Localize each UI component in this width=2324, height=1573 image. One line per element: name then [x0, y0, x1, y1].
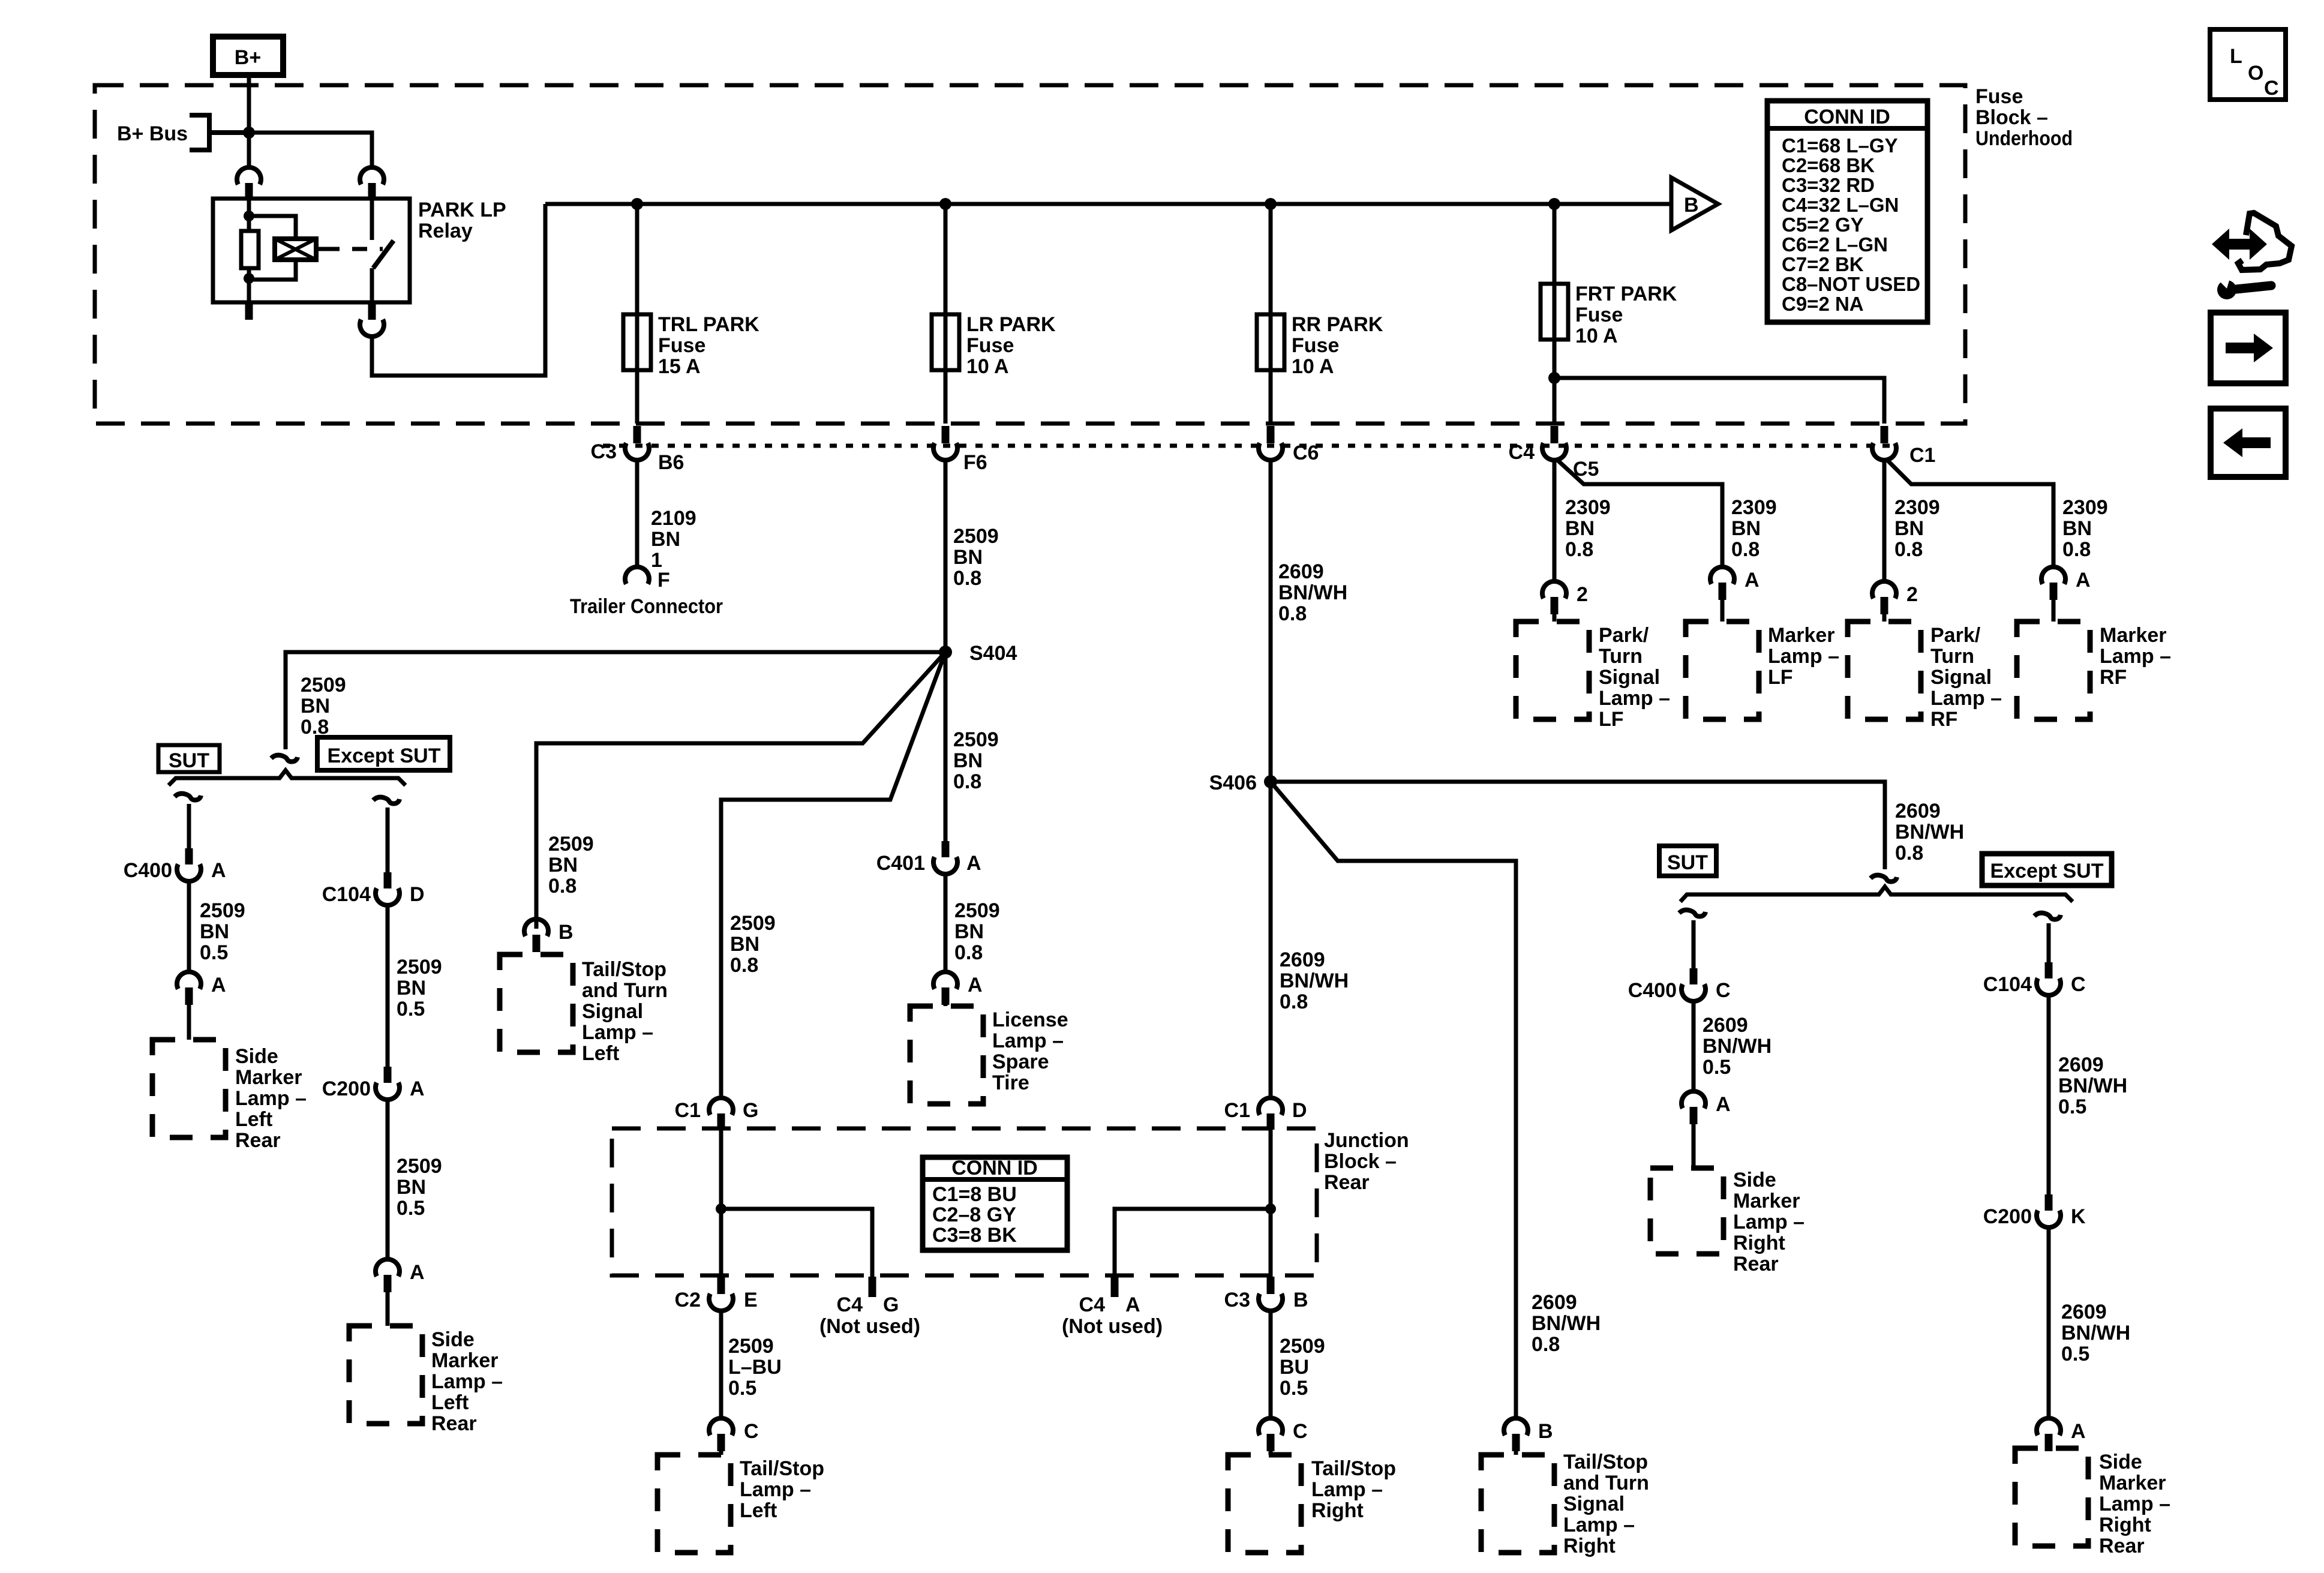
wire relay coil feed: [244, 199, 254, 231]
svg-text:2: 2: [1577, 583, 1588, 606]
junction block rear boundary (dashed): [612, 1128, 1317, 1275]
svg-text:Signal: Signal: [1930, 666, 1992, 689]
svg-text:and Turn: and Turn: [1563, 1472, 1649, 1494]
wire C1D inside junction block: [1265, 1130, 1276, 1277]
wire coil branch bottom: [249, 260, 296, 280]
option split bar right: [1680, 887, 2073, 902]
option tag Except SUT (right): [1982, 854, 2112, 885]
lamp Side Marker Lamp - Right Rear (SUT): [1650, 1168, 1724, 1254]
wire into side marker right rear: [1692, 1124, 1696, 1168]
label circuit 2509 L-BU 0.5: [728, 1335, 782, 1400]
connector C401 pin A: [933, 841, 957, 874]
svg-text:2509: 2509: [397, 956, 442, 978]
svg-text:LR PARK: LR PARK: [966, 313, 1056, 336]
svg-text:2309: 2309: [1565, 496, 1611, 519]
connector C200 pin K: [2037, 1194, 2061, 1227]
svg-text:10 A: 10 A: [966, 355, 1009, 378]
svg-text:Left: Left: [235, 1108, 272, 1131]
connector C1 pin G (junction block): [709, 1098, 733, 1130]
label S406: [1209, 772, 1257, 794]
svg-text:BN: BN: [1565, 517, 1595, 540]
connector B at tail/stop-turn left: [524, 919, 548, 952]
svg-text:Lamp –: Lamp –: [1563, 1514, 1635, 1536]
label C (C104): [2071, 973, 2086, 996]
label Tail/Stop Lamp - Right: [1311, 1457, 1396, 1522]
svg-text:A: A: [1716, 1093, 1731, 1116]
label A (lamp): [211, 974, 226, 996]
label A (C400): [211, 859, 226, 882]
svg-text:Block –: Block –: [1975, 106, 2048, 129]
svg-text:2309: 2309: [2062, 496, 2108, 519]
lamp Tail/Stop and Turn Signal Lamp - Left: [500, 954, 573, 1052]
svg-text:Signal: Signal: [1563, 1493, 1625, 1515]
svg-text:C104: C104: [1983, 973, 2032, 996]
svg-text:Underhood: Underhood: [1975, 127, 2073, 150]
label circuit 2309 BN 0.8 (RF park): [1894, 496, 1940, 561]
svg-text:RF: RF: [1930, 708, 1957, 731]
svg-text:Rear: Rear: [1324, 1171, 1370, 1194]
svg-text:L–BU: L–BU: [728, 1356, 782, 1379]
svg-text:Lamp –: Lamp –: [2100, 645, 2171, 668]
svg-text:Fuse: Fuse: [1292, 334, 1339, 357]
label (Not used) left: [819, 1315, 920, 1338]
svg-text:2509: 2509: [730, 912, 776, 935]
svg-text:BN: BN: [651, 528, 680, 551]
wire C5 to marker LF connector: [1556, 459, 1722, 566]
svg-text:B6: B6: [658, 451, 684, 474]
icon harness diagnostics (arrow + wrench): [2212, 213, 2292, 299]
label C104: [322, 883, 371, 906]
svg-text:Lamp –: Lamp –: [992, 1029, 1064, 1052]
label C400 (right): [1628, 979, 1677, 1002]
svg-text:A: A: [410, 1077, 425, 1100]
svg-text:Junction: Junction: [1324, 1129, 1409, 1152]
harness break (right Except SUT branch): [2034, 913, 2061, 920]
svg-text:2609: 2609: [1703, 1014, 1748, 1037]
icon LOC box: [2210, 29, 2286, 100]
label FRT PARK Fuse 10 A: [1575, 283, 1677, 347]
svg-text:BN/WH: BN/WH: [2061, 1322, 2130, 1344]
svg-text:2609: 2609: [1532, 1291, 1577, 1314]
label circuit 2509 BU 0.5: [1280, 1335, 1325, 1400]
svg-text:B+: B+: [235, 46, 261, 69]
label Marker Lamp - RF: [2100, 624, 2171, 689]
svg-text:TRL PARK: TRL PARK: [658, 313, 759, 336]
label Marker Lamp - LF: [1768, 624, 1839, 689]
label C (C400): [1716, 979, 1731, 1002]
connector 2 at park/turn LF: [1542, 581, 1566, 614]
svg-text:10 A: 10 A: [1575, 325, 1618, 347]
svg-text:Trailer Connector: Trailer Connector: [570, 595, 723, 618]
svg-text:Side: Side: [431, 1328, 475, 1351]
svg-text:BN: BN: [397, 1176, 426, 1199]
connector C400 pin A: [177, 848, 201, 881]
wire into marker RF: [2052, 600, 2056, 622]
svg-text:Right: Right: [1311, 1499, 1364, 1522]
svg-text:Fuse: Fuse: [658, 334, 705, 357]
option split bar (SUT / Except SUT): [169, 770, 406, 785]
label C200: [322, 1077, 371, 1100]
svg-text:CONN ID: CONN ID: [951, 1157, 1038, 1179]
wire C401 to license lamp connector: [944, 872, 948, 971]
svg-text:0.5: 0.5: [1703, 1056, 1731, 1079]
wire F6 to splice S404: [944, 458, 948, 652]
svg-text:0.5: 0.5: [200, 941, 228, 964]
harness break (right split feed): [1870, 875, 1897, 882]
svg-text:D: D: [410, 883, 425, 906]
label C3: [591, 440, 617, 463]
label A (C401): [966, 852, 981, 875]
connector row line (dotted): [603, 444, 1899, 448]
wire C104 to C200: [386, 903, 390, 1067]
svg-text:0.8: 0.8: [730, 954, 758, 977]
svg-text:Fuse: Fuse: [966, 334, 1014, 357]
svg-text:Lamp –: Lamp –: [235, 1087, 307, 1110]
label Park/Turn Signal Lamp - RF: [1930, 624, 2002, 731]
svg-text:B: B: [1684, 194, 1699, 217]
svg-text:C6=2 L–GN: C6=2 L–GN: [1782, 233, 1888, 256]
svg-text:K: K: [2071, 1205, 2086, 1228]
svg-text:C2: C2: [675, 1289, 701, 1311]
label circuit 2609 BN/WH 0.8 (tail right): [1532, 1291, 1601, 1356]
node bus-RR PARK: [1265, 198, 1277, 210]
wire coil branch top: [249, 216, 296, 239]
node: B+ bus junction: [243, 127, 255, 139]
svg-text:C7=2 BK: C7=2 BK: [1782, 253, 1864, 275]
svg-text:Right: Right: [2099, 1514, 2151, 1536]
svg-text:Side: Side: [235, 1045, 278, 1068]
wire to C104 D: [386, 807, 390, 872]
fuse LR PARK 10A: [932, 314, 959, 370]
svg-text:0.5: 0.5: [2061, 1343, 2089, 1365]
lamp Park/Turn Signal Lamp - LF: [1516, 622, 1589, 719]
table CONN ID (junction block): [923, 1157, 1067, 1250]
svg-text:2509: 2509: [953, 728, 999, 751]
svg-text:Lamp –: Lamp –: [582, 1021, 653, 1044]
svg-text:Right: Right: [1733, 1232, 1785, 1254]
B+ Bus tap symbol: [190, 115, 249, 150]
fuse RR PARK 10A: [1257, 314, 1284, 370]
svg-text:Lamp –: Lamp –: [1733, 1211, 1804, 1233]
connector 2 at park/turn RF: [1872, 581, 1896, 614]
wire S404 to C401: [944, 652, 948, 841]
connector A at license lamp: [933, 972, 957, 1005]
svg-text:C4: C4: [1509, 441, 1535, 464]
label A (license): [968, 974, 983, 996]
svg-text:Lamp –: Lamp –: [1930, 687, 2002, 710]
svg-text:2509: 2509: [548, 833, 594, 855]
label C401: [876, 852, 925, 875]
svg-text:Block –: Block –: [1324, 1150, 1397, 1173]
connector C3 pin B6: [625, 426, 649, 460]
svg-text:Turn: Turn: [1930, 645, 1974, 668]
wire S404 to tail/stop-turn left: [536, 652, 945, 929]
wire C3 to trailer connector: [635, 458, 639, 566]
wire into marker LF: [1721, 600, 1725, 622]
harness break (split feed): [271, 755, 298, 762]
power symbol B+ (boxed): [213, 37, 283, 75]
label circuit 2609 BN/WH 0.8 (C6): [1278, 560, 1347, 625]
svg-text:Left: Left: [740, 1499, 777, 1522]
svg-text:BN: BN: [548, 854, 578, 876]
svg-text:0.8: 0.8: [1731, 538, 1759, 561]
svg-text:0.5: 0.5: [1280, 1377, 1308, 1400]
svg-text:C: C: [2071, 973, 2086, 996]
label Side Marker Lamp - Right Rear: [1733, 1169, 1804, 1275]
svg-text:FRT PARK: FRT PARK: [1575, 283, 1677, 305]
label C5: [1573, 458, 1599, 481]
svg-text:Right: Right: [1563, 1535, 1616, 1557]
svg-text:BN: BN: [954, 920, 984, 943]
relay switch fixed contact: [370, 199, 374, 240]
wire bus to RR PARK fuse: [1269, 204, 1273, 424]
svg-text:0.8: 0.8: [1895, 842, 1923, 864]
label License Lamp - Spare Tire: [992, 1008, 1068, 1094]
label circuit 2609 BN/WH 0.5 (C104 C): [2058, 1053, 2127, 1118]
svg-text:Turn: Turn: [1599, 645, 1643, 668]
lamp Park/Turn Signal Lamp - RF: [1848, 622, 1921, 719]
svg-text:C2–8 GY: C2–8 GY: [932, 1203, 1016, 1226]
connector C2 pin E: [709, 1277, 733, 1311]
svg-text:B: B: [1293, 1289, 1308, 1311]
option tag Except SUT (left): [317, 737, 450, 770]
svg-text:SUT: SUT: [1667, 851, 1708, 874]
wire into park/turn LF: [1553, 614, 1557, 622]
wire C400C to lamp connector: [1692, 999, 1696, 1090]
label Tail/Stop and Turn Signal Lamp - Left: [582, 958, 668, 1065]
svg-text:S406: S406: [1209, 772, 1257, 794]
svg-text:Fuse: Fuse: [1575, 304, 1623, 326]
svg-text:Except SUT: Except SUT: [1990, 860, 2104, 882]
svg-text:L: L: [2230, 45, 2242, 68]
svg-text:(Not used): (Not used): [1062, 1315, 1163, 1338]
svg-text:C200: C200: [322, 1077, 371, 1100]
wire to C400 A: [187, 804, 191, 848]
svg-text:0.8: 0.8: [1532, 1333, 1560, 1356]
svg-text:C3: C3: [1224, 1289, 1250, 1311]
svg-text:Side: Side: [2099, 1451, 2142, 1473]
svg-text:C2=68 BK: C2=68 BK: [1782, 154, 1875, 176]
svg-text:A: A: [2071, 1420, 2086, 1443]
relay switch pin connector (cup+tick): [360, 167, 384, 199]
label circuit 2509 BN 0.8 (F6): [953, 525, 999, 590]
svg-text:C1: C1: [1224, 1099, 1250, 1122]
svg-text:Relay: Relay: [418, 220, 473, 242]
svg-text:BN: BN: [1731, 517, 1761, 540]
connector F6: [933, 426, 957, 460]
svg-text:C4=32 L–GN: C4=32 L–GN: [1782, 194, 1899, 216]
harness break (Except SUT branch): [373, 797, 400, 804]
svg-text:2609: 2609: [2058, 1053, 2104, 1076]
svg-text:F: F: [657, 569, 670, 592]
svg-text:C9=2 NA: C9=2 NA: [1782, 293, 1864, 315]
label A (marker LF): [1744, 569, 1759, 592]
wire B+ bus to relay coil pin: [247, 133, 251, 166]
svg-text:A: A: [2076, 569, 2091, 592]
svg-text:C1=68 L–GY: C1=68 L–GY: [1782, 134, 1898, 157]
svg-text:BU: BU: [1280, 1356, 1309, 1379]
label C (tail right): [1293, 1420, 1308, 1443]
wire parklamp feed bus: [545, 202, 1670, 206]
wire C104C to C200K: [2047, 993, 2051, 1194]
svg-text:BN: BN: [301, 695, 330, 718]
svg-text:2609: 2609: [1895, 800, 1941, 822]
label B+ Bus: [117, 122, 188, 145]
terminal C4 pin A (not used): [1111, 1277, 1119, 1297]
svg-text:PARK LP: PARK LP: [418, 199, 506, 221]
connector C3 pin B (junction block): [1259, 1277, 1283, 1311]
svg-text:Lamp –: Lamp –: [431, 1370, 503, 1393]
label A (lamp 2): [410, 1261, 425, 1284]
splice S404: [939, 646, 952, 659]
svg-text:0.5: 0.5: [2058, 1095, 2086, 1118]
label circuit 2309 BN 0.8 (LF marker): [1731, 496, 1777, 561]
label C3 (B): [1224, 1289, 1250, 1311]
svg-text:Spare: Spare: [992, 1050, 1049, 1073]
label Fuse Block - Underhood: [1975, 85, 2073, 150]
svg-text:Fuse: Fuse: [1975, 85, 2023, 108]
svg-text:2509: 2509: [1280, 1335, 1325, 1358]
svg-text:Tail/Stop: Tail/Stop: [740, 1457, 824, 1480]
label circuit 2509 BN 0.8 (tail left): [548, 833, 594, 897]
wire into tail/stop right: [1269, 1451, 1273, 1455]
svg-text:0.8: 0.8: [1894, 538, 1923, 561]
svg-text:Park/: Park/: [1599, 624, 1649, 647]
fuse block underhood boundary (dashed): [95, 85, 1965, 424]
svg-text:2309: 2309: [1731, 496, 1777, 519]
label circuit 2609 BN/WH 0.8 (C1 D): [1280, 948, 1349, 1013]
svg-text:Marker: Marker: [1768, 624, 1835, 647]
svg-text:A: A: [968, 974, 983, 996]
label C104 (right): [1983, 973, 2032, 996]
svg-text:Lamp –: Lamp –: [740, 1478, 811, 1501]
label A (marker RF): [2076, 569, 2091, 592]
relay coil pin 1 connector (cup+tick): [237, 167, 261, 199]
svg-text:0.8: 0.8: [1280, 990, 1308, 1013]
harness break (right SUT branch): [1679, 910, 1706, 917]
label S404: [969, 642, 1017, 665]
connector A at marker RF: [2041, 567, 2065, 600]
label C200 (right): [1983, 1205, 2032, 1228]
relay PARK LP outline: [213, 199, 410, 302]
wire resistor to coil bottom node: [244, 268, 254, 302]
svg-text:S404: S404: [969, 642, 1017, 665]
svg-text:A: A: [966, 852, 981, 875]
svg-text:B: B: [559, 921, 574, 944]
label D: [410, 883, 425, 906]
svg-text:2309: 2309: [1894, 496, 1940, 519]
connector A at side marker left rear: [177, 972, 201, 1005]
label G (C4): [883, 1293, 899, 1316]
label TRL PARK Fuse 15 A: [658, 313, 759, 378]
wire C200 to lamp connector: [386, 1097, 390, 1258]
label circuit 2509 BN 0.5 (C104): [397, 956, 442, 1020]
label circuit 2509 BN 0.8 (split feed): [301, 674, 346, 739]
wire C3B to tail/stop right connector: [1269, 1308, 1273, 1417]
connector C104 pin C: [2037, 962, 2061, 995]
connector A at side marker right rear (SUT): [1682, 1091, 1706, 1124]
svg-text:BN: BN: [953, 546, 983, 569]
svg-text:(Not used): (Not used): [819, 1315, 920, 1338]
svg-text:Tail/Stop: Tail/Stop: [582, 958, 666, 981]
label RR PARK Fuse 10 A: [1292, 313, 1383, 378]
label circuit 2609 BN/WH 0.5 (C200 K): [2061, 1301, 2130, 1365]
svg-text:Left: Left: [582, 1042, 619, 1065]
label C4 (A): [1079, 1293, 1106, 1316]
svg-text:0.8: 0.8: [2062, 538, 2091, 561]
svg-text:2609: 2609: [2061, 1301, 2107, 1323]
svg-text:C5=2 GY: C5=2 GY: [1782, 214, 1864, 236]
svg-text:License: License: [992, 1008, 1068, 1031]
option tag SUT (left): [158, 745, 220, 772]
connector C6: [1259, 426, 1283, 460]
connector B at tail/stop-turn right: [1504, 1418, 1528, 1451]
table CONN ID (fuse block): [1767, 101, 1927, 322]
label D (C1): [1292, 1099, 1307, 1122]
label C1: [1909, 444, 1935, 467]
label circuit 2509 BN 0.8 (license): [954, 899, 1000, 964]
wire junction to C4 A stub: [1115, 1209, 1271, 1277]
svg-text:BN: BN: [1894, 517, 1924, 540]
svg-text:Marker: Marker: [1733, 1190, 1800, 1212]
wire B+ to B+ bus junction: [247, 75, 251, 133]
svg-text:0.8: 0.8: [548, 875, 577, 897]
label C6: [1293, 442, 1319, 464]
label B (tail right): [1538, 1420, 1553, 1443]
wire to C400 C: [1692, 920, 1696, 968]
svg-text:2509: 2509: [953, 525, 999, 548]
svg-text:Tail/Stop: Tail/Stop: [1311, 1457, 1396, 1480]
label B (C3): [1293, 1289, 1308, 1311]
svg-text:C401: C401: [876, 852, 925, 875]
svg-text:0.8: 0.8: [954, 941, 983, 964]
svg-text:Lamp –: Lamp –: [2099, 1493, 2170, 1515]
connector F trailer: [625, 567, 649, 584]
svg-text:0.8: 0.8: [1278, 602, 1307, 625]
svg-text:CONN ID: CONN ID: [1804, 106, 1890, 128]
label B6: [658, 451, 684, 474]
svg-text:LF: LF: [1768, 666, 1793, 689]
lamp Marker Lamp - RF: [2017, 622, 2090, 719]
label LR PARK Fuse 10 A: [966, 313, 1056, 378]
lamp Tail/Stop Lamp - Left: [657, 1455, 731, 1553]
relay actuator dashed link: [325, 247, 383, 251]
label circuit 2609 BN/WH 0.5 (C400 C): [1703, 1014, 1771, 1079]
svg-text:Except SUT: Except SUT: [328, 745, 441, 767]
connector C400 pin C: [1682, 968, 1706, 1001]
svg-text:Tail/Stop: Tail/Stop: [1563, 1451, 1648, 1473]
label A (marker RR): [1716, 1093, 1731, 1116]
connector C1 (fuse block right): [1872, 426, 1896, 460]
svg-text:BN/WH: BN/WH: [1278, 581, 1347, 604]
svg-text:C3: C3: [591, 440, 617, 463]
wire bus to FRT PARK fuse: [1553, 204, 1557, 424]
svg-text:Side: Side: [1733, 1169, 1776, 1191]
svg-text:C400: C400: [1628, 979, 1677, 1002]
wire S406 to junction block C1 D: [1269, 782, 1273, 1095]
svg-text:C3=32 RD: C3=32 RD: [1782, 174, 1875, 196]
svg-text:C1: C1: [675, 1099, 701, 1122]
lamp Side Marker Lamp - Right Rear (Except SUT): [2015, 1448, 2088, 1546]
svg-text:A: A: [410, 1261, 425, 1284]
node FRT PARK branch: [1548, 372, 1560, 384]
label Side Marker Lamp - Right Rear 2: [2099, 1451, 2170, 1557]
wire FRT PARK branch to C1: [1554, 378, 1884, 424]
svg-text:2509: 2509: [954, 899, 1000, 922]
wire C4 to park/turn LF connector: [1553, 458, 1557, 580]
wire junction to C4 G stub: [721, 1209, 872, 1277]
svg-text:BN: BN: [200, 920, 229, 943]
